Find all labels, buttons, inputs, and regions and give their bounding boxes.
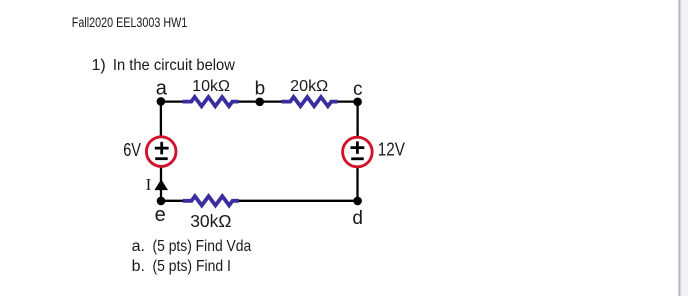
node d junction dot	[353, 197, 362, 206]
wire R2 to c	[337, 100, 358, 102]
page edge divider line	[678, 0, 680, 296]
svg-text:Fall2020 EEL3003 HW1: Fall2020 EEL3003 HW1	[72, 15, 188, 30]
svg-text:c: c	[353, 79, 363, 100]
V1 plus sign	[155, 142, 169, 155]
V2 minus sign	[351, 157, 364, 160]
svg-text:b.: b.	[132, 258, 145, 275]
node b junction dot	[255, 98, 264, 107]
resistor R1 10kΩ	[183, 97, 239, 106]
wire V2 to d	[356, 166, 358, 201]
svg-text:(5 pts) Find Vda: (5 pts) Find Vda	[153, 238, 252, 255]
resistor R3 30kΩ	[183, 196, 239, 205]
svg-text:30kΩ: 30kΩ	[190, 211, 231, 231]
wire R3 to d	[239, 200, 358, 202]
node e junction dot	[157, 197, 166, 206]
svg-text:(5 pts) Find I: (5 pts) Find I	[153, 258, 231, 275]
svg-text:12V: 12V	[378, 139, 405, 159]
page margin background	[681, 0, 688, 296]
svg-text:a: a	[156, 78, 168, 100]
svg-text:I: I	[146, 175, 152, 194]
svg-text:b: b	[255, 79, 266, 100]
wire e to R3	[161, 200, 184, 202]
V2 plus sign	[351, 141, 365, 154]
voltage source V2 12V circle	[343, 137, 373, 167]
svg-text:20kΩ: 20kΩ	[290, 78, 328, 95]
svg-text:In the circuit below: In the circuit below	[113, 57, 235, 74]
wire a to R1	[161, 100, 184, 102]
resistor R2 20kΩ	[282, 97, 338, 106]
svg-text:a.: a.	[132, 238, 145, 255]
wire V1 to e	[160, 166, 162, 201]
wire R1 to b	[238, 100, 259, 102]
current arrow I	[154, 179, 168, 190]
voltage source V1 6V circle	[146, 137, 176, 167]
V1 minus sign	[155, 157, 168, 160]
wire a down to V1	[160, 102, 162, 138]
wire b to R2	[260, 100, 282, 102]
svg-text:d: d	[352, 208, 363, 229]
svg-text:1): 1)	[92, 57, 106, 74]
svg-text:10kΩ: 10kΩ	[192, 78, 230, 95]
wire c down to V2	[356, 102, 358, 138]
svg-text:e: e	[155, 204, 166, 226]
node a junction dot	[157, 97, 166, 106]
node c junction dot	[353, 98, 362, 107]
svg-text:6V: 6V	[123, 140, 141, 160]
